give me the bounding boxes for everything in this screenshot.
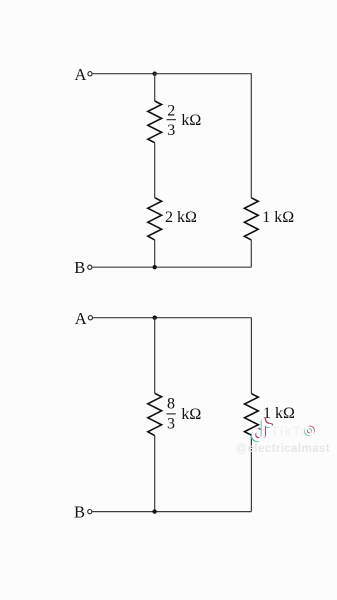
wire middle branch between R1 and R2 xyxy=(154,143,156,198)
top wire (bottom circuit) xyxy=(93,317,251,319)
tiktok note logo teal layer xyxy=(252,421,269,441)
wire top junction to top-right corner xyxy=(155,73,252,75)
resistor R2 (2 kOhm) zigzag xyxy=(148,198,162,240)
wire middle branch top segment xyxy=(154,74,156,101)
tiktok wordmark colored o : red ring xyxy=(307,427,314,434)
wire right branch lower (bottom circuit) xyxy=(250,435,252,511)
svg-text:A: A xyxy=(75,309,87,328)
svg-text:kΩ: kΩ xyxy=(181,112,201,129)
value label 2/3 kOhm : fraction bar xyxy=(167,119,176,121)
svg-text:A: A xyxy=(74,65,86,84)
junction dot top (bottom circuit) xyxy=(153,316,157,320)
svg-text:B: B xyxy=(74,258,85,277)
junction dot top (top circuit) xyxy=(153,72,157,76)
tiktok wordmark colored o : teal ring xyxy=(305,428,312,435)
wire right branch upper (top circuit) xyxy=(250,73,252,198)
svg-text:8: 8 xyxy=(167,396,175,413)
wire right branch lower (top circuit) xyxy=(250,240,252,267)
wire middle branch upper (bottom circuit) xyxy=(154,318,156,394)
tiktok wordmark colored o : white core ring xyxy=(306,427,313,434)
junction dot bottom (bottom circuit) xyxy=(152,509,156,513)
wire A to top junction xyxy=(93,73,155,75)
resistor R3 (1 kOhm right branch) zigzag xyxy=(244,198,258,240)
terminal A (bottom circuit) xyxy=(88,316,92,320)
svg-text:@electricalmast: @electricalmast xyxy=(236,443,330,455)
svg-text:2: 2 xyxy=(167,103,175,120)
terminal B (bottom circuit) xyxy=(88,510,92,514)
terminal B (top circuit) xyxy=(88,265,92,269)
wire middle branch bottom segment xyxy=(154,240,156,267)
tiktok note logo red layer xyxy=(255,419,272,439)
svg-text:1 kΩ: 1 kΩ xyxy=(263,405,295,422)
svg-text:3: 3 xyxy=(167,416,175,433)
resistor R4 (8/3 kOhm) zigzag xyxy=(148,393,162,435)
bottom wire (top circuit) xyxy=(92,266,251,268)
svg-text:2 kΩ: 2 kΩ xyxy=(165,209,197,226)
tiktok note logo white core xyxy=(254,420,271,440)
svg-text:kΩ: kΩ xyxy=(181,406,201,423)
resistor R5 (1 kOhm right branch bottom circuit) zigzag xyxy=(245,394,259,436)
value label 8/3 kOhm : fraction bar xyxy=(166,413,175,415)
svg-text:3: 3 xyxy=(167,122,175,139)
bottom wire (bottom circuit) xyxy=(92,511,251,513)
svg-text:B: B xyxy=(74,503,85,522)
resistor R1 (2/3 kOhm) zigzag xyxy=(148,101,162,143)
wire right branch upper (bottom circuit) xyxy=(250,318,252,394)
junction dot bottom (top circuit) xyxy=(153,265,157,269)
wire middle branch lower (bottom circuit) xyxy=(154,436,156,512)
terminal A (top circuit) xyxy=(88,72,92,76)
svg-text:1 kΩ: 1 kΩ xyxy=(262,209,294,226)
